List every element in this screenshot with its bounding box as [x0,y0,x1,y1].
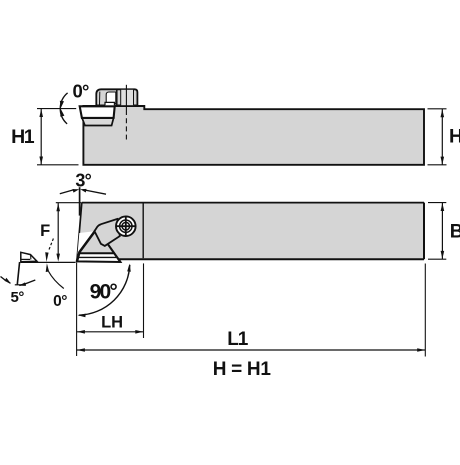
0 deg label (upper view) [72,81,88,102]
tip reference line (extends left from insert point) [21,261,76,263]
LH dimension [77,263,144,356]
svg-text:L1: L1 [227,329,249,350]
svg-text:H = H1: H = H1 [213,359,272,380]
insert side view [80,106,115,118]
H = H1 note [213,359,272,380]
90 deg annotation [78,264,131,318]
svg-text:0°: 0° [53,293,67,310]
svg-text:90°: 90° [90,281,118,304]
svg-text:F: F [40,222,50,240]
H1 dimension (left) [11,109,78,165]
B dimension (right) [428,203,460,260]
clamp screw head (torx, top view) [116,216,136,236]
svg-text:LH: LH [101,314,123,332]
svg-text:5°: 5° [11,289,25,306]
holder body (top view, with front edge and head/shank boundary) [77,203,424,262]
svg-text:B: B [450,222,460,243]
0 deg arc with opposing arrows (upper view) [60,93,68,124]
svg-text:H1: H1 [11,126,35,148]
5 deg detail (insert tip side profile) [1,252,37,306]
shim (seat) side view [82,118,114,126]
svg-text:3°: 3° [75,170,91,190]
H dimension (right) [428,109,460,165]
L1 dimension [77,264,425,357]
svg-text:H: H [449,125,460,147]
clamp + screw head (upper view) [96,89,137,105]
clamp arm + nose (top view) [95,219,120,246]
3 deg angle lines + arrows [60,187,106,215]
0 deg annotation (lower view) [45,239,67,311]
F dimension [40,203,81,262]
svg-text:0°: 0° [72,81,88,102]
3 deg label [75,170,91,190]
screw centerline (dash-dot) [125,85,127,140]
insert (triangular, top view) [77,229,121,262]
holder body (head + shank) [83,106,424,165]
